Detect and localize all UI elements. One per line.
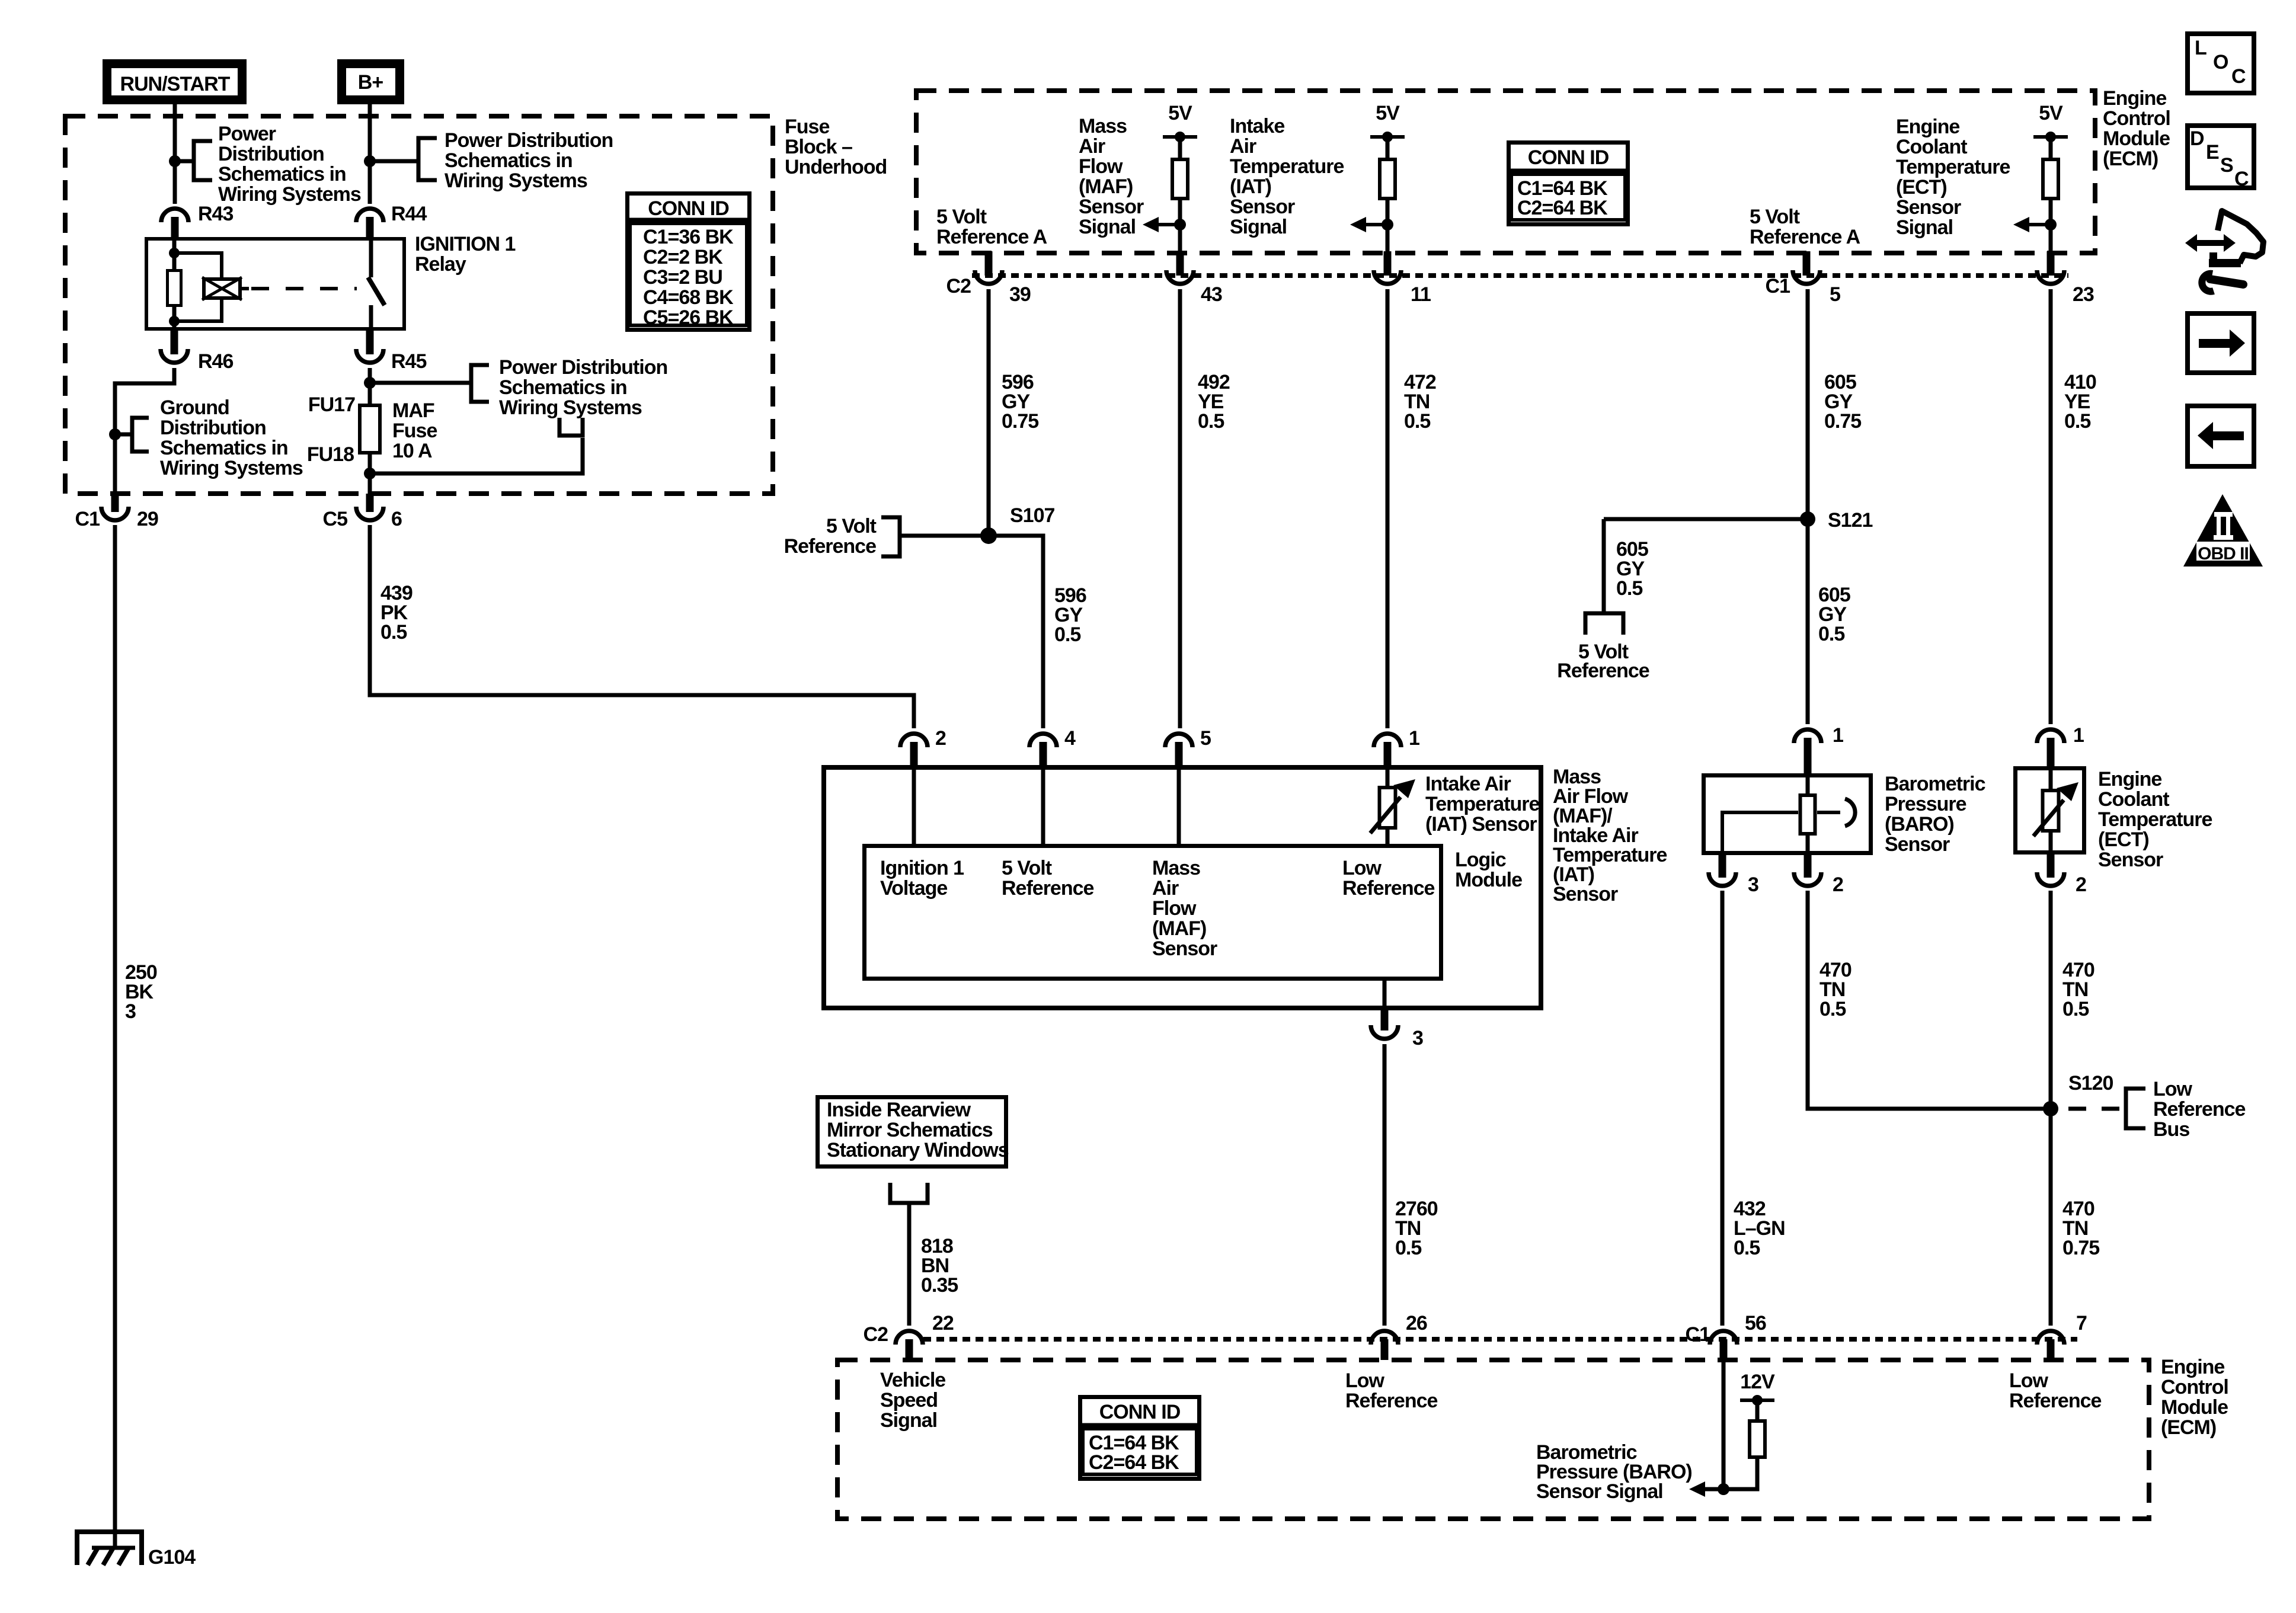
svg-text:Flow: Flow	[1152, 897, 1197, 920]
svg-text:Reference A: Reference A	[936, 226, 1047, 248]
svg-text:5 Volt: 5 Volt	[826, 515, 877, 537]
svg-text:Inside Rearview: Inside Rearview	[827, 1099, 971, 1121]
svg-text:Speed: Speed	[880, 1389, 938, 1412]
svg-text:Sensor: Sensor	[1885, 833, 1950, 856]
svg-text:R44: R44	[391, 203, 427, 225]
svg-text:CONN ID: CONN ID	[1528, 146, 1609, 169]
svg-text:Sensor: Sensor	[2098, 849, 2163, 871]
svg-text:G104: G104	[148, 1546, 196, 1569]
svg-text:Temperature: Temperature	[2098, 808, 2212, 831]
svg-text:0.5: 0.5	[380, 621, 407, 644]
svg-text:S120: S120	[2068, 1072, 2113, 1094]
svg-text:Module: Module	[2161, 1396, 2228, 1419]
svg-text:0.75: 0.75	[2062, 1237, 2099, 1259]
svg-text:R46: R46	[198, 350, 233, 373]
svg-text:(MAF): (MAF)	[1152, 917, 1206, 940]
svg-text:Reference: Reference	[1557, 660, 1649, 682]
svg-text:Underhood: Underhood	[785, 156, 887, 178]
svg-text:12V: 12V	[1740, 1371, 1775, 1393]
svg-text:CONN ID: CONN ID	[1099, 1401, 1181, 1423]
svg-text:39: 39	[1009, 283, 1031, 306]
svg-text:1: 1	[2073, 724, 2084, 747]
svg-text:E: E	[2206, 141, 2219, 164]
svg-text:C2=64 BK: C2=64 BK	[1517, 197, 1608, 219]
svg-text:Relay: Relay	[415, 253, 466, 276]
svg-text:Distribution: Distribution	[160, 417, 266, 439]
svg-text:Schematics in: Schematics in	[218, 163, 346, 185]
svg-text:Engine: Engine	[1896, 116, 1959, 138]
svg-text:Power Distribution: Power Distribution	[499, 356, 667, 379]
svg-text:0.5: 0.5	[1819, 998, 1846, 1020]
svg-text:Reference: Reference	[2153, 1098, 2246, 1121]
svg-text:7: 7	[2076, 1312, 2087, 1334]
svg-text:0.5: 0.5	[2062, 998, 2089, 1020]
svg-text:5V: 5V	[1168, 102, 1192, 124]
svg-text:(IAT): (IAT)	[1230, 175, 1271, 198]
svg-text:Flow: Flow	[1079, 155, 1123, 178]
svg-text:C5: C5	[323, 508, 348, 530]
svg-text:5V: 5V	[2039, 102, 2063, 124]
svg-text:0.5: 0.5	[1198, 410, 1224, 433]
svg-text:C1=36 BK: C1=36 BK	[643, 226, 734, 248]
svg-text:(ECT): (ECT)	[1896, 176, 1947, 199]
svg-text:23: 23	[2073, 283, 2094, 306]
svg-text:R45: R45	[391, 350, 426, 373]
svg-text:Reference: Reference	[1345, 1390, 1438, 1412]
svg-text:Temperature: Temperature	[1230, 155, 1344, 178]
svg-text:Reference: Reference	[2009, 1390, 2102, 1412]
svg-text:3: 3	[125, 1000, 136, 1023]
svg-text:10 A: 10 A	[392, 440, 432, 462]
svg-text:Coolant: Coolant	[2098, 788, 2169, 811]
svg-text:Vehicle: Vehicle	[880, 1369, 945, 1391]
svg-text:29: 29	[137, 508, 158, 530]
svg-text:2: 2	[935, 727, 946, 750]
svg-text:(ECM): (ECM)	[2161, 1416, 2216, 1439]
svg-text:Schematics in: Schematics in	[160, 437, 288, 459]
svg-text:Fuse: Fuse	[392, 420, 437, 442]
svg-text:5 Volt: 5 Volt	[936, 206, 987, 228]
svg-text:Signal: Signal	[1230, 216, 1287, 238]
svg-text:0.5: 0.5	[1054, 623, 1080, 646]
svg-text:L: L	[2195, 37, 2207, 59]
svg-text:Control: Control	[2161, 1376, 2228, 1398]
svg-text:C3=2 BU: C3=2 BU	[643, 266, 722, 289]
svg-text:Schematics in: Schematics in	[445, 149, 573, 172]
svg-text:Intake: Intake	[1230, 115, 1284, 137]
svg-text:56: 56	[1745, 1312, 1766, 1334]
svg-text:0.5: 0.5	[2064, 410, 2090, 433]
svg-text:Distribution: Distribution	[218, 143, 324, 165]
svg-text:S107: S107	[1010, 504, 1054, 527]
svg-text:Intake Air: Intake Air	[1425, 773, 1511, 795]
svg-text:Mass: Mass	[1079, 115, 1127, 137]
svg-text:Mass: Mass	[1152, 857, 1200, 879]
svg-text:C2: C2	[864, 1323, 888, 1346]
svg-text:Block –: Block –	[785, 136, 852, 158]
svg-text:Reference: Reference	[1342, 877, 1435, 900]
svg-text:FU17: FU17	[308, 393, 355, 416]
svg-text:O: O	[2213, 51, 2228, 73]
svg-text:RUN/START: RUN/START	[120, 73, 231, 95]
svg-text:Signal: Signal	[880, 1409, 937, 1432]
svg-text:C: C	[2231, 65, 2246, 88]
svg-text:IGNITION 1: IGNITION 1	[415, 233, 516, 255]
svg-text:0.5: 0.5	[1616, 577, 1642, 600]
svg-text:Mirror Schematics: Mirror Schematics	[827, 1119, 993, 1141]
svg-text:Wiring Systems: Wiring Systems	[160, 457, 303, 479]
svg-text:Wiring Systems: Wiring Systems	[445, 169, 587, 192]
svg-text:0.5: 0.5	[1734, 1237, 1760, 1259]
svg-text:Wiring Systems: Wiring Systems	[218, 183, 361, 206]
svg-text:Sensor: Sensor	[1553, 883, 1618, 905]
svg-text:Sensor: Sensor	[1079, 196, 1144, 218]
svg-text:Logic: Logic	[1455, 849, 1506, 871]
svg-text:5: 5	[1830, 283, 1840, 306]
svg-text:Temperature: Temperature	[1425, 793, 1540, 815]
svg-text:Control: Control	[2103, 107, 2170, 130]
svg-text:(ECT): (ECT)	[2098, 828, 2149, 851]
svg-text:Sensor: Sensor	[1152, 937, 1217, 960]
svg-text:C4=68 BK: C4=68 BK	[643, 286, 734, 309]
svg-text:5V: 5V	[1376, 102, 1400, 124]
svg-text:Coolant: Coolant	[1896, 136, 1967, 158]
svg-text:FU18: FU18	[307, 443, 354, 466]
svg-text:C1: C1	[75, 508, 100, 530]
svg-text:0.75: 0.75	[1002, 410, 1038, 433]
svg-text:11: 11	[1411, 283, 1431, 306]
svg-text:(IAT) Sensor: (IAT) Sensor	[1425, 813, 1537, 836]
svg-text:1: 1	[1409, 727, 1419, 750]
svg-text:Reference: Reference	[1002, 877, 1094, 900]
svg-text:26: 26	[1406, 1312, 1427, 1334]
svg-text:0.35: 0.35	[921, 1274, 958, 1297]
svg-text:Low: Low	[2153, 1078, 2193, 1100]
svg-text:0.5: 0.5	[1818, 623, 1844, 645]
svg-text:Ground: Ground	[160, 396, 229, 419]
svg-text:Air: Air	[1152, 877, 1179, 900]
svg-text:Power Distribution: Power Distribution	[445, 129, 613, 152]
svg-text:Stationary Windows: Stationary Windows	[827, 1139, 1009, 1161]
svg-text:Module: Module	[1455, 869, 1522, 891]
svg-text:0.75: 0.75	[1824, 410, 1861, 433]
svg-text:Ignition 1: Ignition 1	[880, 857, 964, 879]
svg-text:S121: S121	[1828, 509, 1872, 532]
svg-text:Air: Air	[1230, 135, 1256, 158]
svg-text:0.5: 0.5	[1404, 410, 1430, 433]
svg-text:Low: Low	[2009, 1369, 2049, 1392]
svg-text:6: 6	[391, 508, 402, 530]
svg-text:Air: Air	[1079, 135, 1105, 158]
svg-text:3: 3	[1412, 1027, 1423, 1049]
svg-text:OBD II: OBD II	[2198, 544, 2249, 564]
svg-text:B+: B+	[358, 71, 383, 94]
svg-text:Engine: Engine	[2098, 768, 2161, 791]
svg-text:Pressure: Pressure	[1885, 793, 1966, 815]
svg-text:Temperature: Temperature	[1896, 156, 2010, 178]
svg-text:C: C	[2234, 168, 2249, 190]
svg-text:C2: C2	[946, 275, 971, 297]
svg-text:4: 4	[1064, 727, 1076, 750]
svg-text:S: S	[2220, 154, 2233, 177]
svg-text:Signal: Signal	[1079, 216, 1136, 238]
svg-text:3: 3	[1748, 873, 1758, 896]
svg-text:Barometric: Barometric	[1885, 773, 1985, 795]
svg-text:Sensor: Sensor	[1230, 196, 1295, 218]
svg-text:C2=64 BK: C2=64 BK	[1089, 1451, 1179, 1474]
svg-text:MAF: MAF	[392, 399, 434, 422]
svg-text:22: 22	[932, 1312, 954, 1334]
svg-text:C1: C1	[1766, 275, 1790, 297]
svg-text:Engine: Engine	[2161, 1356, 2224, 1378]
svg-text:C5=26 BK: C5=26 BK	[643, 306, 734, 329]
svg-text:Reference: Reference	[784, 535, 877, 558]
svg-text:Engine: Engine	[2103, 87, 2166, 110]
svg-text:D: D	[2190, 127, 2204, 150]
svg-text:Bus: Bus	[2153, 1118, 2189, 1141]
svg-text:2: 2	[1833, 873, 1843, 896]
svg-text:C1: C1	[1686, 1323, 1710, 1346]
svg-text:Schematics in: Schematics in	[499, 376, 627, 399]
svg-text:5 Volt: 5 Volt	[1750, 206, 1800, 228]
svg-text:(BARO): (BARO)	[1885, 813, 1954, 836]
svg-text:(ECM): (ECM)	[2103, 148, 2158, 170]
svg-text:1: 1	[1833, 724, 1843, 747]
svg-text:Module: Module	[2103, 127, 2170, 150]
svg-text:Reference A: Reference A	[1750, 226, 1860, 248]
svg-text:Low: Low	[1342, 857, 1382, 879]
svg-text:CONN ID: CONN ID	[648, 197, 729, 220]
svg-text:(MAF): (MAF)	[1079, 175, 1133, 198]
svg-text:43: 43	[1201, 283, 1222, 306]
svg-text:Fuse: Fuse	[785, 116, 829, 138]
svg-text:0.5: 0.5	[1395, 1237, 1421, 1259]
svg-text:Signal: Signal	[1896, 216, 1953, 239]
svg-text:2: 2	[2076, 873, 2086, 896]
svg-text:C2=2 BK: C2=2 BK	[643, 246, 723, 268]
svg-text:Voltage: Voltage	[880, 877, 947, 900]
svg-text:Sensor: Sensor	[1896, 196, 1961, 219]
svg-text:R43: R43	[198, 203, 233, 225]
svg-text:Low: Low	[1345, 1369, 1385, 1392]
svg-text:Power: Power	[218, 123, 276, 145]
svg-text:5 Volt: 5 Volt	[1002, 857, 1052, 879]
svg-text:5: 5	[1200, 727, 1211, 750]
svg-text:Sensor Signal: Sensor Signal	[1536, 1480, 1663, 1503]
svg-text:Wiring Systems: Wiring Systems	[499, 396, 642, 419]
